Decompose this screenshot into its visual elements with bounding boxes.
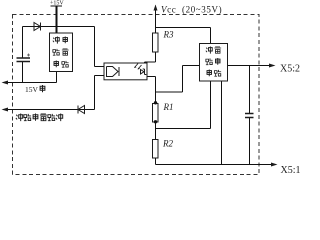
dashed enclosure border: [13, 15, 260, 175]
resistor R3: [153, 33, 159, 52]
wire bottom rail: [156, 164, 272, 166]
wire R3 bottom elbow to opto: [145, 52, 156, 69]
driver box: [200, 44, 228, 82]
wire R1-R2 junction to driver pin: [156, 81, 211, 129]
arrowhead X5:2: [269, 64, 276, 68]
wire top-left net: [23, 26, 95, 28]
arrowhead X5:1: [271, 163, 278, 167]
driver box text row2: [206, 58, 213, 64]
wire opto emitter to R1: [143, 75, 156, 77]
opto LED: [107, 67, 120, 77]
wire protection riser to opto: [95, 76, 107, 110]
Vcc arrowhead: [154, 5, 158, 11]
capacitor C2: [245, 114, 254, 118]
svg-text:R1: R1: [163, 102, 174, 112]
wire driver right bottom pin: [221, 81, 223, 165]
capacitor C1 polarity mark: [27, 54, 30, 57]
label 15V cjk char: [40, 85, 45, 92]
svg-text:15V: 15V: [25, 85, 39, 94]
wire Vcc entry to R3: [155, 6, 157, 34]
buffer box text row3: [54, 61, 59, 68]
buffer box: [50, 33, 73, 72]
wire buffer box bottom stub: [56, 72, 58, 83]
wire R2 rail: [155, 129, 157, 165]
capacitor C1: [17, 58, 31, 62]
arrowhead 15V output: [2, 81, 9, 85]
arrowhead protection input: [2, 108, 9, 112]
svg-text:+15V: +15V: [50, 1, 64, 7]
wire R1 rail: [155, 77, 157, 129]
wire capacitor drop: [22, 27, 24, 83]
wire right junction drop with capacitor gap: [249, 66, 251, 165]
optocoupler U1 box: [104, 63, 147, 80]
wire X5:2 output: [228, 65, 270, 67]
wire top rail to driver box: [156, 28, 211, 44]
wire 15V output rail: [3, 82, 57, 84]
resistor R2: [153, 140, 159, 159]
opto receiver diode: [141, 69, 147, 75]
resistor R1: [153, 104, 159, 123]
wire protection input: [3, 109, 95, 111]
diode D2 protection: [78, 106, 85, 114]
wire opto anode feed: [95, 27, 107, 67]
buffer box text row2: [53, 49, 60, 55]
svg-text:R3: R3: [163, 30, 174, 40]
wire opto collector to driver input: [156, 66, 200, 93]
junction dot R1 bottom: [154, 120, 157, 123]
svg-text:X5:2: X5:2: [280, 64, 300, 75]
diode D1 top: [34, 23, 41, 31]
+15V supply drop wire: [51, 5, 63, 7]
label protection signal input: [16, 114, 63, 122]
driver box text row3: [207, 70, 212, 77]
opto light arrows: [135, 64, 142, 70]
svg-text:Vcc (20~35V): Vcc (20~35V): [161, 5, 222, 15]
svg-text:R2: R2: [162, 139, 173, 149]
junction dot R1 top: [154, 101, 157, 104]
driver box text row1: [206, 47, 212, 54]
svg-text:X5:1: X5:1: [281, 165, 301, 176]
buffer box text row1: [53, 37, 59, 44]
